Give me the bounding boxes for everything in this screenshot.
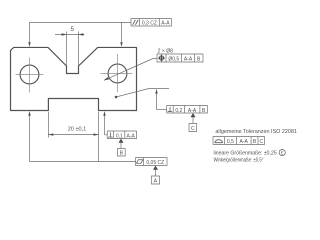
- dimension 20 extension line left: [47, 112, 49, 138]
- svg-text:0,2: 0,2: [175, 108, 182, 114]
- leader flatness arrow: [28, 111, 30, 116]
- centerline hole right horizontal: [101, 73, 133, 75]
- svg-text:B: B: [120, 151, 124, 157]
- svg-text:2 × Ø8: 2 × Ø8: [158, 48, 174, 54]
- dimension 20 extension line right: [98, 112, 100, 162]
- FCF perpendicularity 01 frame: [107, 131, 136, 139]
- leader parallelism right arrow: [120, 42, 122, 47]
- envelope symbol circle: [279, 150, 285, 156]
- hole left: [20, 65, 39, 84]
- dimension 5 extension line left: [66, 32, 68, 66]
- svg-text:0,1: 0,1: [116, 133, 123, 139]
- dimension 20 line: [48, 134, 98, 136]
- svg-text:A: A: [154, 179, 158, 185]
- dimension 5 arrow right: [79, 33, 84, 35]
- leader perpendicularity 01 arrow: [103, 111, 105, 116]
- svg-text:0,3 CZ: 0,3 CZ: [142, 21, 157, 27]
- leader perpendicularity 01 vertical: [104, 114, 106, 135]
- centerline hole left vertical: [29, 58, 31, 93]
- perpendicularity symbol 02: [168, 107, 173, 112]
- datum C stem: [192, 117, 194, 124]
- leader face dot: [115, 96, 118, 99]
- leader parallelism right drop: [121, 22, 123, 43]
- datum C box: [189, 124, 197, 132]
- leader position: [104, 59, 157, 81]
- svg-text:0,5: 0,5: [227, 139, 234, 145]
- flatness symbol: [136, 160, 143, 163]
- svg-text:A-A: A-A: [240, 139, 249, 145]
- perpendicularity symbol 01: [108, 132, 113, 137]
- svg-text:Winkelgrößenmaße: ±0,5°: Winkelgrößenmaße: ±0,5°: [214, 157, 264, 163]
- datum B stem: [120, 143, 122, 149]
- leader parallelism left arrow: [28, 42, 30, 47]
- centerline hole right vertical: [117, 54, 119, 92]
- svg-text:Ø0,5: Ø0,5: [168, 56, 179, 62]
- svg-text:C: C: [259, 139, 263, 145]
- leader perpendicularity 02 arrow: [155, 89, 157, 94]
- svg-text:A-A: A-A: [188, 108, 197, 114]
- leader perpendicularity 02 horizontal: [157, 109, 167, 111]
- dimension 20 arrow right: [94, 133, 99, 135]
- FCF position frame: [157, 54, 203, 62]
- svg-text:C: C: [191, 126, 195, 132]
- leader parallelism horizontal: [30, 21, 132, 23]
- leader perpendicularity 01 horizontal: [105, 134, 108, 136]
- leader flatness horizontal: [30, 161, 136, 163]
- dimension 5 line: [55, 34, 84, 36]
- svg-text:A-A: A-A: [127, 133, 136, 139]
- leader flatness vertical: [29, 114, 31, 162]
- hole right: [108, 64, 127, 83]
- dimension 5 arrow left: [62, 33, 67, 35]
- part outline: [11, 47, 137, 110]
- FCF flatness frame: [136, 158, 167, 166]
- centerline hole left horizontal: [16, 74, 44, 76]
- FCF profile frame: [213, 137, 265, 145]
- leader perpendicularity 02 vertical: [156, 92, 158, 110]
- leader position arrow: [104, 77, 109, 80]
- datum C triangle: [191, 113, 196, 117]
- dimension 20 arrow left: [48, 133, 53, 135]
- svg-text:allgemeine Toleranzen ISO 2208: allgemeine Toleranzen ISO 22081: [215, 129, 297, 135]
- leader face line: [116, 89, 169, 98]
- profile of surface symbol: [215, 140, 223, 143]
- svg-text:A-A: A-A: [161, 21, 170, 27]
- svg-text:E: E: [281, 151, 284, 156]
- svg-text:A-A: A-A: [184, 56, 193, 62]
- parallelism symbol: [133, 20, 139, 25]
- datum A box: [151, 176, 159, 184]
- svg-text:0,05 CZ: 0,05 CZ: [146, 160, 164, 166]
- datum A stem: [155, 170, 157, 177]
- dimension 5 extension line right: [78, 32, 80, 66]
- FCF parallelism frame: [131, 19, 172, 27]
- datum B triangle: [119, 139, 124, 143]
- datum B box: [118, 149, 126, 157]
- svg-text:lineare Größenmaße: ±0,25: lineare Größenmaße: ±0,25: [214, 151, 277, 157]
- FCF perpendicularity 02 frame: [167, 106, 208, 114]
- svg-text:20 ±0,1: 20 ±0,1: [68, 127, 87, 133]
- leader parallelism left drop: [29, 22, 31, 43]
- datum A triangle: [153, 166, 158, 170]
- position symbol: [158, 55, 165, 62]
